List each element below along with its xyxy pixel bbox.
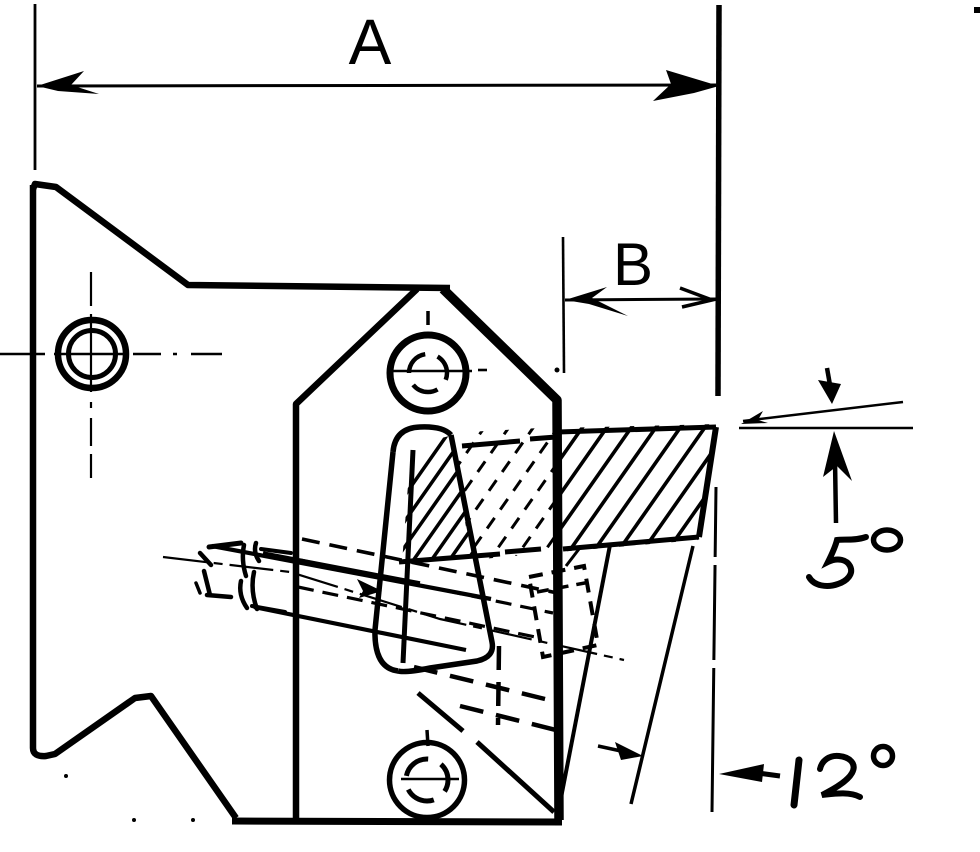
5 degree sloped line <box>743 402 903 421</box>
lower screw centerline tick above <box>427 730 428 746</box>
upper screw centerline tick above <box>426 311 430 325</box>
svg-text:A: A <box>349 6 392 78</box>
screw thread dashed top <box>300 560 553 613</box>
12 degree arrow toward slanted line <box>598 746 621 751</box>
5 degree up arrow shaft <box>835 460 836 523</box>
corner tick mark top right <box>974 7 980 13</box>
dimension A extension line right <box>718 5 719 396</box>
stray ink dot <box>132 818 136 822</box>
dimension A right arrowhead <box>653 70 719 101</box>
dimension A line <box>37 85 716 86</box>
screw facet top right <box>255 543 259 561</box>
handwritten 2 <box>820 756 860 797</box>
screw hex head left dash <box>196 583 200 593</box>
insert right edge <box>699 427 716 537</box>
clamp right edge <box>398 435 492 672</box>
screw washer curve right <box>253 572 257 609</box>
screw hex head top edge <box>209 543 241 547</box>
insert top edge hidden dashes <box>462 437 556 446</box>
lower screw centerline horizontal <box>401 778 459 780</box>
degree mark of 5 <box>874 530 901 550</box>
stray ink dot <box>555 368 560 373</box>
handwritten 1 <box>794 760 799 805</box>
pocket edge line <box>560 545 610 803</box>
degree mark of 12 <box>874 747 893 766</box>
mounting hole inner <box>69 331 116 378</box>
tool body left edge <box>33 185 236 818</box>
5 degree down arrow <box>827 368 830 385</box>
insert bottom edge visible left <box>399 549 541 562</box>
screw shaft bottom outer line <box>254 607 466 650</box>
screw hex facet line <box>243 545 246 576</box>
screw thread dashed bottom <box>298 587 540 638</box>
12 degree slanted line <box>631 546 693 804</box>
tapped hole hidden line upper <box>302 539 562 594</box>
handwritten 5 <box>809 537 866 586</box>
screw neck top line <box>261 549 291 553</box>
insert bottom edge <box>563 537 699 549</box>
tool body bottom edge <box>232 821 562 822</box>
mounting hole centerline vertical <box>90 272 92 478</box>
screw hex head bottom edge <box>207 595 231 597</box>
screw shaft second top line <box>263 553 420 583</box>
12 degree arrow toward extension line <box>719 764 764 782</box>
screw shaft top outer line <box>212 546 491 599</box>
hidden square nut inner dash <box>537 582 590 592</box>
svg-text:B: B <box>613 231 653 298</box>
stray ink dot <box>191 818 195 822</box>
mounting hole centerline horizontal <box>0 353 222 355</box>
screw hex head left chamfer <box>200 553 211 565</box>
lower screw head outer circle <box>390 743 465 818</box>
screw centerline <box>163 557 624 660</box>
cartridge block right edge <box>443 289 559 820</box>
tool body outline <box>33 184 450 288</box>
hidden square nut dashed outline <box>529 566 598 657</box>
clamp left outer edge <box>375 452 398 671</box>
stray ink dot <box>64 774 68 778</box>
cartridge block left edge <box>296 289 417 818</box>
dimension A extension line left <box>34 4 37 170</box>
insert hatching solid <box>448 413 789 585</box>
hidden hole dashed vertical <box>498 646 499 725</box>
pocket visible diagonal <box>418 693 554 812</box>
upper screw centerline horizontal <box>390 370 472 372</box>
upper screw socket dashed circle <box>409 354 447 392</box>
screw washer curve left <box>240 581 247 608</box>
12 degree extension line <box>712 487 716 812</box>
dimension B line <box>565 299 716 300</box>
upper screw centerline dash right <box>478 369 487 372</box>
5 degree horizontal reference line <box>739 427 913 430</box>
hidden hole dashed diagonal lower <box>460 706 560 731</box>
hidden hole dashed diagonal upper <box>414 667 545 699</box>
dimension A left arrowhead <box>37 71 99 94</box>
dimension B right arrowhead <box>680 288 712 307</box>
5 degree up arrow head <box>823 431 852 481</box>
mounting hole outer <box>58 320 126 388</box>
clamp hatching solid <box>342 413 571 585</box>
screw hex head left lower edge <box>204 571 210 595</box>
screw centerline arrowhead <box>357 579 382 598</box>
hatch dash below insert bottom <box>566 549 579 566</box>
clamp inner left line <box>403 450 413 663</box>
insert hatching hidden dashed <box>374 413 642 585</box>
insert top edge <box>558 427 716 432</box>
dimension B left arrowhead <box>565 287 628 316</box>
dimension B extension line <box>563 237 564 373</box>
5 degree sloped line arrowhead <box>741 411 768 424</box>
lower screw socket dashed circle <box>406 759 448 801</box>
screw shaft bottom short line <box>252 606 285 612</box>
upper screw head outer circle <box>390 335 466 411</box>
clamp dome top <box>393 427 451 452</box>
